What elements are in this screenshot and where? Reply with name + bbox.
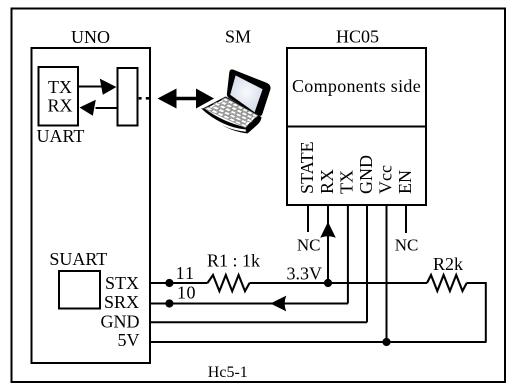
pin STATE stub [307, 205, 309, 232]
wire shifter to RX with arrow [96, 107, 118, 109]
svg-text:R2k: R2k [433, 254, 463, 274]
svg-text:RX: RX [317, 169, 337, 194]
junction dot Vcc 5V [382, 338, 390, 346]
level shifter box [118, 68, 138, 126]
resistor R2k [427, 275, 467, 291]
svg-text:GND: GND [101, 311, 140, 331]
HC05 box [287, 48, 426, 205]
lid [227, 69, 271, 115]
GND wire [150, 321, 367, 323]
resistor R1 [208, 275, 250, 291]
svg-text:3.3V: 3.3V [287, 263, 323, 283]
wire node to R2k [328, 282, 427, 284]
SUART box [59, 271, 100, 309]
pin RX wire [327, 205, 329, 283]
svg-text:Components side: Components side [292, 76, 421, 96]
svg-text:GND: GND [356, 155, 376, 194]
bidirectional arrow to SM [158, 89, 215, 109]
arrow left on SRX wire [270, 296, 286, 312]
svg-text:SM: SM [225, 27, 251, 47]
dashed wire shifter to arrow [139, 97, 151, 100]
svg-text:SUART: SUART [49, 249, 107, 269]
pin TX wire [347, 205, 349, 304]
screen [230, 75, 262, 112]
SRX wire [150, 303, 348, 305]
svg-text:SRX: SRX [104, 292, 139, 312]
base right wall [246, 116, 262, 134]
pin GND wire [366, 205, 368, 322]
wire R2k down to 5V rail [467, 283, 486, 342]
base keyboard deck [204, 97, 259, 128]
5V wire [150, 341, 487, 343]
svg-text:HC05: HC05 [336, 26, 379, 46]
svg-text:NC: NC [297, 236, 321, 255]
UNO box [32, 48, 151, 363]
svg-text:RX: RX [47, 95, 72, 115]
svg-text:UART: UART [37, 126, 85, 146]
svg-text:EN: EN [395, 170, 415, 194]
svg-text:Vcc: Vcc [376, 165, 396, 194]
wire TX to shifter with arrow [78, 86, 102, 88]
svg-text:Hc5-1: Hc5-1 [208, 364, 248, 381]
svg-text:STX: STX [105, 273, 139, 293]
svg-text:NC: NC [395, 236, 419, 255]
svg-text:TX: TX [48, 77, 72, 97]
pin Vcc wire [386, 205, 388, 342]
STX wire [150, 282, 208, 284]
svg-text:10: 10 [177, 282, 196, 302]
base front wall black [201, 108, 248, 134]
junction dot 3.3V node [324, 279, 332, 287]
svg-text:5V: 5V [118, 330, 140, 350]
base bottom white band [202, 111, 246, 131]
keyboard keys [205, 98, 258, 128]
arrow up on RX wire [320, 222, 336, 238]
svg-text:R1 : 1k: R1 : 1k [207, 250, 260, 270]
junction dot pin 10 [165, 299, 173, 307]
wire R1 to RX node [249, 282, 328, 284]
svg-text:UNO: UNO [71, 27, 110, 47]
svg-text:TX: TX [337, 170, 357, 194]
svg-text:11: 11 [176, 263, 195, 283]
HC05 divider [287, 126, 426, 128]
svg-text:STATE: STATE [297, 141, 317, 194]
UART TX/RX box [39, 67, 79, 126]
pin EN stub [405, 205, 407, 233]
junction dot pin 11 [165, 279, 173, 287]
laptop icon SM [201, 69, 271, 133]
